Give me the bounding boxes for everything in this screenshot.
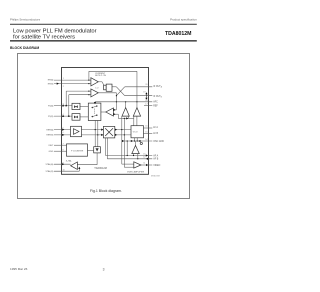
svg-text:TDA8012M: TDA8012M: [94, 167, 107, 170]
svg-text:1: 1: [63, 78, 64, 80]
svg-text:11: 11: [143, 163, 145, 165]
svg-text:REF(B): REF(B): [46, 135, 53, 137]
svg-text:Fig.1 Block diagram.: Fig.1 Block diagram.: [90, 189, 122, 193]
svg-text:15: 15: [145, 131, 147, 133]
svg-text:4: 4: [63, 114, 64, 116]
svg-text:LO: LO: [96, 87, 99, 89]
svg-text:17: 17: [145, 104, 147, 106]
svg-text:OSC GND: OSC GND: [153, 141, 164, 143]
svg-text:Philips Semiconductors: Philips Semiconductors: [10, 17, 41, 21]
svg-text:VIDEO: VIDEO: [153, 165, 160, 167]
svg-text:7: 7: [63, 144, 64, 146]
svg-text:P COUNTER: P COUNTER: [71, 150, 84, 152]
svg-text:AF A: AF A: [153, 154, 158, 157]
svg-text:19: 19: [143, 91, 145, 93]
svg-text:9: 9: [63, 162, 64, 164]
svg-text:AFC: AFC: [153, 101, 158, 104]
svg-text:12: 12: [143, 157, 145, 159]
svg-text:Product specification: Product specification: [170, 17, 197, 21]
svg-text:MGD359: MGD359: [151, 176, 161, 178]
svg-text:XTAL(A): XTAL(A): [45, 163, 53, 166]
svg-text:ISET: ISET: [49, 145, 54, 147]
svg-text:VIDEO AMPLIFIER: VIDEO AMPLIFIER: [127, 170, 145, 173]
svg-text:AF B: AF B: [153, 158, 159, 161]
svg-text:GND: GND: [49, 151, 54, 153]
svg-text:3: 3: [63, 104, 64, 106]
svg-text:18: 18: [145, 100, 147, 102]
svg-text:RF(B): RF(B): [48, 83, 54, 85]
svg-text:RF(A): RF(A): [48, 79, 54, 82]
svg-text:14: 14: [145, 139, 147, 141]
svg-text:SET/LP ON: SET/LP ON: [95, 75, 106, 77]
svg-text:for satellite TV receivers: for satellite TV receivers: [13, 35, 75, 41]
svg-text:13: 13: [143, 153, 145, 155]
svg-text:8: 8: [63, 150, 64, 152]
svg-text:TDA8012M: TDA8012M: [165, 31, 192, 37]
svg-text:BLOCK DIAGRAM: BLOCK DIAGRAM: [10, 46, 39, 50]
svg-text:P1(B): P1(B): [48, 116, 54, 118]
svg-text:20: 20: [145, 84, 147, 86]
svg-text:XTAL(B): XTAL(B): [45, 170, 53, 173]
svg-text:IF OUTA: IF OUTA: [153, 85, 163, 88]
svg-text:6: 6: [63, 132, 64, 134]
svg-text:P1(A): P1(A): [48, 104, 54, 107]
svg-text:LF A: LF A: [153, 126, 158, 129]
svg-text:LF B: LF B: [153, 133, 158, 135]
svg-text:10: 10: [63, 169, 65, 171]
svg-text:5: 5: [63, 128, 64, 130]
svg-text:16: 16: [145, 125, 147, 127]
svg-text:IF OUTB: IF OUTB: [153, 96, 162, 99]
svg-text:2: 2: [63, 86, 64, 88]
svg-text:X-TAL: X-TAL: [66, 159, 73, 162]
svg-text:1995 Mar 26: 1995 Mar 26: [10, 267, 28, 271]
svg-text:REF(A): REF(A): [46, 128, 53, 131]
svg-text:3: 3: [103, 267, 105, 271]
svg-text:REF: REF: [153, 105, 158, 107]
svg-text:VCO: VCO: [133, 132, 138, 134]
